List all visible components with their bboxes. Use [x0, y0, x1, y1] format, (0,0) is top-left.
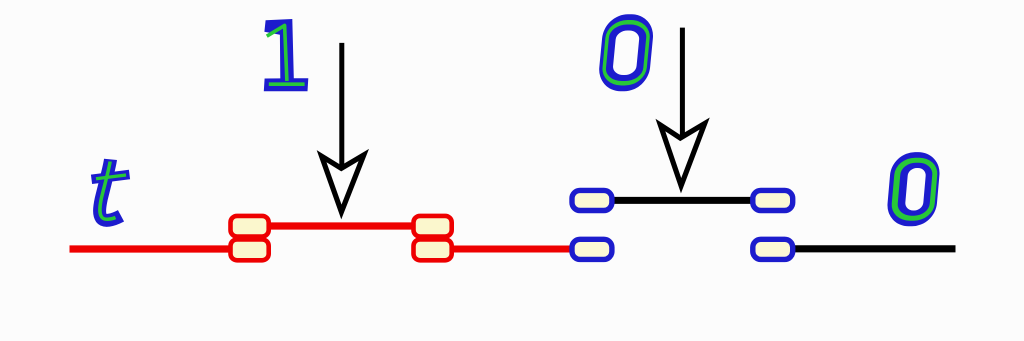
label: digit 0 (output value), blue glyph with green ring core — [886, 152, 942, 226]
switch S1 contact: lower-left red pad — [231, 239, 269, 260]
label: net name t (input), italic, green core blue outline — [92, 159, 130, 220]
switch S1 contact: upper-right red pad — [414, 216, 452, 237]
wire: red output of S1 to S2 lower-left contact — [445, 246, 580, 253]
switch S2 contact: lower-left blue pad — [572, 239, 612, 259]
switch S1 contact: upper-left red pad — [231, 216, 269, 237]
switch S2 contact: lower-right blue pad — [753, 239, 793, 259]
label: digit 0 (control value for S2), blue glyph with green ring core — [597, 14, 655, 91]
wire: black output net, lower level right — [760, 245, 956, 252]
switch S2 contact: upper-right blue pad — [753, 190, 793, 210]
switch S2 contact: upper-left blue pad — [572, 190, 612, 210]
wire: red input net t, lower level — [70, 245, 250, 252]
label: digit 1 (control value for S1), blue glyph with green core — [264, 19, 309, 91]
arrow: control input 0 onto switch S2 — [660, 28, 704, 186]
arrow: control input 1 onto switch S1 — [322, 43, 364, 212]
wire: black bridge between upper contacts of switch S2 (open) — [610, 197, 754, 204]
switch S1 contact: lower-right red pad — [414, 239, 452, 260]
wire: red bridge between upper contacts of switch S1 (closed) — [260, 222, 420, 229]
